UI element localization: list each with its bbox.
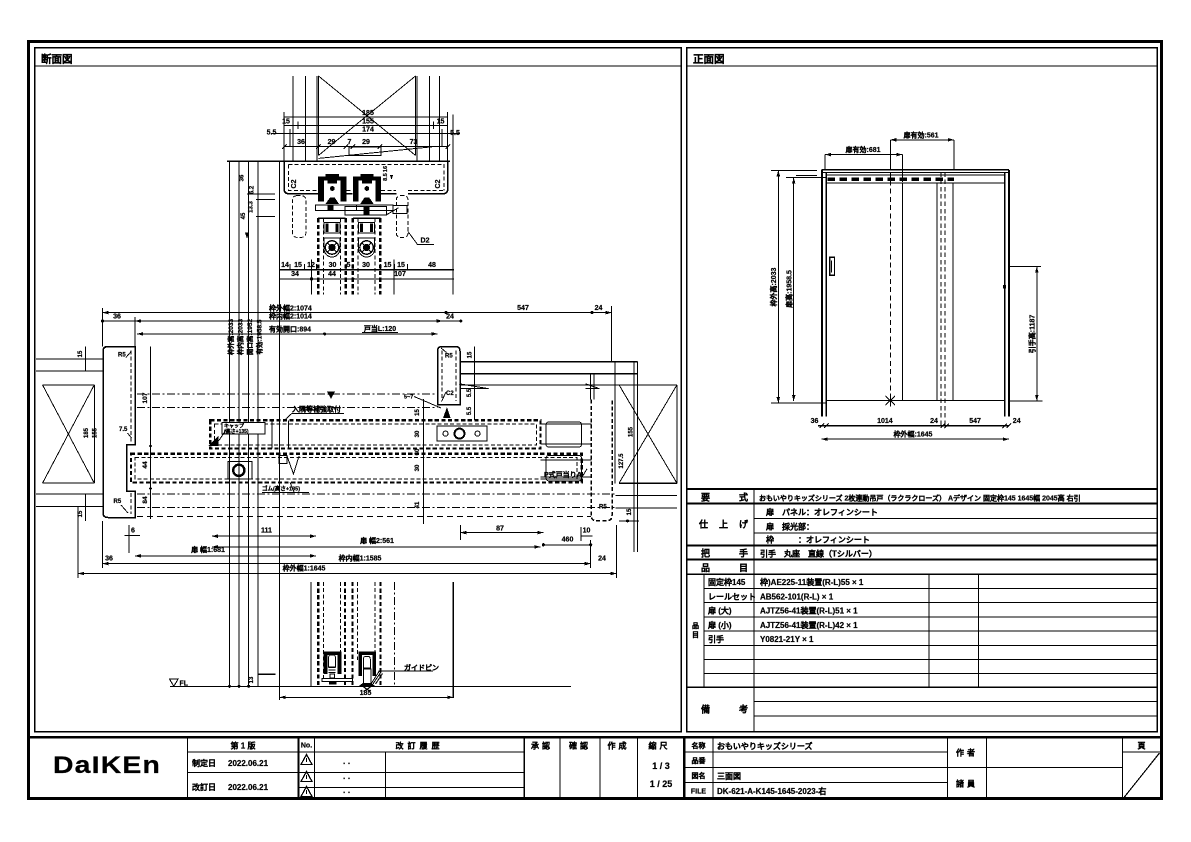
svg-text:第 1 版: 第 1 版 [231,741,256,751]
svg-text:185: 185 [84,427,90,438]
svg-text:扉 採光部：: 扉 採光部： [765,522,814,532]
svg-text:36: 36 [297,139,305,146]
svg-text:C2: C2 [446,391,454,397]
svg-text:5.5: 5.5 [467,388,473,397]
svg-text:15: 15 [437,119,445,126]
svg-text:R5: R5 [114,499,122,505]
svg-text:6.2: 6.2 [250,185,256,194]
header underline left section [188,751,525,753]
FL label [170,679,179,686]
svg-text:29: 29 [328,139,336,146]
svg-text:式: 式 [739,492,748,503]
svg-text:考: 考 [739,704,748,715]
svg-text:24: 24 [930,418,938,425]
svg-text:D2: D2 [421,238,430,245]
svg-text:155: 155 [362,119,374,126]
hidden door 2 right edge [952,183,954,401]
dim 扉高:1958.5 [793,178,795,401]
door B roller [359,238,375,257]
svg-text:枠外幅:1645: 枠外幅:1645 [894,430,933,439]
svg-text:15: 15 [415,409,421,416]
svg-text:品番: 品番 [692,756,707,765]
svg-text:30: 30 [362,262,370,269]
svg-text:84: 84 [142,496,149,504]
rail housing top line [227,160,450,162]
wedge below X [319,147,433,159]
pocket edge solid [452,582,454,698]
svg-text:30: 30 [415,430,421,437]
svg-text:15: 15 [282,119,290,126]
D2 label with leader [408,232,434,245]
long vertical jamb lines [229,161,231,686]
svg-text:1 / 25: 1 / 25 [650,779,673,789]
svg-text:8.5: 8.5 [383,173,389,181]
door B bottom section edges [351,582,353,687]
svg-text:改訂履歴: 改訂履歴 [396,741,444,751]
svg-text:15: 15 [468,351,474,358]
svg-text:枠内幅1:1585: 枠内幅1:1585 [339,553,382,562]
svg-text:48: 48 [428,262,436,269]
door bar 2 (lower door leaf plan) [131,454,582,483]
left jamb channel [103,347,135,518]
svg-text:諸員: 諸員 [956,779,978,789]
svg-text:10: 10 [583,528,591,535]
handle height reference dot [1003,285,1006,288]
rotated dim column mid-plan [423,399,425,524]
hanging point marks [208,436,219,446]
svg-text:FILE: FILE [691,789,706,796]
dim extension lines [283,112,285,161]
pocket strip [591,400,612,521]
svg-text:155: 155 [629,426,635,437]
floor guide unit B [358,652,362,677]
svg-text:引手: 引手 [708,634,724,644]
svg-text:1 / 3: 1 / 3 [652,761,670,771]
svg-text:30: 30 [415,464,421,471]
svg-text:5.5: 5.5 [267,130,277,137]
svg-text:34: 34 [291,271,299,278]
svg-text:頁: 頁 [1138,742,1146,751]
right frame jamb [1004,172,1006,416]
svg-text:枠外幅1:1645: 枠外幅1:1645 [283,563,326,572]
svg-text:547: 547 [969,418,981,425]
dim extension verticals [102,308,104,347]
door leaf hidden edge (dashed) [889,172,891,400]
right wall lower face lines [616,495,677,497]
svg-text:扉 パネル：オレフィンシート: 扉 パネル：オレフィンシート [765,507,878,517]
svg-text:P式戸当りA: P式戸当りA [544,470,582,479]
pivot detail in bar 2 [228,462,252,480]
left seal strip [293,196,306,238]
svg-text:5: 5 [347,262,351,269]
vertical divider after logo cell [187,737,189,798]
door bar 1 solid cap [546,422,582,447]
svg-text:有効開口:894: 有効開口:894 [269,324,311,333]
wall stub lines top-left [796,169,817,171]
svg-text:枠外高:2033: 枠外高:2033 [226,319,235,356]
svg-text:固定枠145: 固定枠145 [708,577,746,587]
ガイドピン label with leader [379,670,404,672]
svg-text:44: 44 [328,271,336,278]
svg-text:7: 7 [348,139,352,146]
dim ticks [282,144,450,149]
svg-text:· ·: · · [343,788,351,797]
svg-text:29: 29 [362,139,370,146]
door A roller [324,238,340,257]
頁 diagonal [1124,753,1160,798]
svg-text:手: 手 [739,548,748,559]
svg-text:枠内幅2:1014: 枠内幅2:1014 [269,312,312,321]
svg-text:備: 備 [701,704,710,715]
svg-text:30: 30 [329,262,337,269]
svg-text:460: 460 [562,537,574,544]
svg-text:ガイドピン: ガイドピン [404,663,439,672]
svg-text:41: 41 [415,501,421,508]
label column divider [753,489,755,687]
name row dividers [684,751,947,753]
svg-text:戸当L:120: 戸当L:120 [364,324,396,333]
pointer mark below right jamb [443,407,451,418]
svg-text:44: 44 [142,461,149,469]
svg-text:開口高:1952: 開口高:1952 [245,319,254,356]
dim 引手高:1187 [1036,267,1038,401]
svg-text:扉有効:681: 扉有効:681 [844,145,880,154]
svg-text:AJTZ56-41装置(R-L)42 × 1: AJTZ56-41装置(R-L)42 × 1 [760,620,858,630]
hanger unit A [318,174,346,204]
rev row dividers [188,772,525,774]
svg-text:枠内高:2033: 枠内高:2033 [236,319,245,356]
svg-text:547: 547 [517,305,529,312]
svg-text:作成: 作成 [608,741,630,751]
svg-text:FL: FL [180,681,189,688]
svg-text:AJTZ56-41装置(R-L)51 × 1: AJTZ56-41装置(R-L)51 × 1 [760,606,858,616]
svg-text:6: 6 [131,528,135,535]
divider after revision section [523,737,525,798]
door leaf right edge [902,183,904,401]
svg-text:おもいやりキッズシリーズ: おもいやりキッズシリーズ [717,741,812,751]
door B head section [352,218,354,294]
svg-text:C2: C2 [291,179,298,188]
svg-text:· ·: · · [343,759,351,768]
svg-text:引手 丸座 直線（Tシルバー）: 引手 丸座 直線（Tシルバー） [760,549,877,559]
head wall band right [459,361,637,363]
closer linkage bar [316,205,357,211]
svg-text:制定日: 制定日 [192,758,216,768]
svg-text:185: 185 [360,690,372,697]
svg-text:確認: 確認 [569,741,591,751]
svg-text:仕: 仕 [698,519,708,530]
spec table top border [687,488,1158,490]
thick divider before name section [683,737,685,798]
svg-text:· ·: · · [343,774,351,783]
svg-text:15: 15 [397,262,405,269]
svg-text:36: 36 [811,418,819,425]
svg-text:目: 目 [692,631,699,639]
svg-text:R5: R5 [118,353,126,359]
right wall break X [619,384,677,386]
svg-text:15: 15 [384,262,392,269]
svg-text:要: 要 [701,493,711,503]
svg-text:185: 185 [362,110,374,117]
left wall face lines [36,358,103,360]
svg-text:引手高:1187: 引手高:1187 [1028,315,1037,354]
divider before No col [298,737,300,798]
svg-text:45: 45 [241,212,247,219]
svg-text:DaIKEn: DaIKEn [53,752,161,779]
svg-text:14: 14 [281,262,289,269]
left panel (section view) frame [35,48,682,732]
svg-text:Y0821-21Y × 1: Y0821-21Y × 1 [760,635,814,644]
dim 枠外高:2033 (left outer) [777,170,779,403]
rail housing inner dashed outline [289,165,444,191]
right panel header line [687,65,1158,67]
centerlines upper [137,393,438,395]
svg-text:扉 (大): 扉 (大) [707,606,732,616]
svg-text:AB562-101(R-L) × 1: AB562-101(R-L) × 1 [760,592,834,601]
svg-text:13: 13 [249,676,255,683]
centerlines lower [137,493,616,495]
FL line [170,686,571,688]
キャップ callout in bar 1 [222,423,265,435]
right seal strip [396,196,408,238]
svg-text:C2: C2 [435,179,442,188]
svg-text:60: 60 [415,448,421,455]
svg-text:品: 品 [701,563,710,573]
bottom dim row 2 : 枠外幅1645 [822,438,1009,440]
svg-text:111: 111 [261,528,272,535]
band verticals [590,374,592,400]
floor guide unit A [324,652,328,675]
empty item rows [704,659,1157,661]
svg-text:15: 15 [627,508,633,515]
latch detail in bar 1 [437,426,487,441]
svg-text:5~7: 5~7 [404,395,413,401]
svg-text:127.5: 127.5 [619,453,625,469]
svg-text:有効:1958.5: 有効:1958.5 [255,319,264,354]
door handle [830,257,835,275]
svg-text:24: 24 [595,305,603,312]
bottom dim row 1 [818,425,1009,427]
extension stubs below dims [311,260,313,295]
svg-text:枠外高:2033: 枠外高:2033 [769,267,778,306]
pocket opening edge [936,183,938,401]
svg-text:15: 15 [294,262,302,269]
svg-text:改訂日: 改訂日 [192,782,216,792]
door A bottom section edges [310,582,312,687]
svg-text:作者: 作者 [956,748,978,758]
pocket centerline [393,582,395,687]
svg-text:扉有効:561: 扉有効:561 [902,131,938,140]
作者 col [947,737,949,798]
svg-text:三面図: 三面図 [717,772,741,781]
svg-text:枠外幅2:1074: 枠外幅2:1074 [269,303,312,312]
floor line [826,400,1004,402]
svg-text:ゴム(高さ+135): ゴム(高さ+135) [262,485,300,493]
hanger unit B [353,174,381,204]
quantity column dividers [928,574,930,687]
svg-text:24: 24 [598,555,606,562]
svg-text:扉 幅1:681: 扉 幅1:681 [190,545,225,554]
svg-text:87: 87 [496,526,504,533]
svg-text:24: 24 [446,314,454,321]
svg-text:R5: R5 [445,354,453,360]
svg-text:174: 174 [362,127,374,134]
wall break X box [318,76,320,155]
svg-text:155: 155 [93,427,99,438]
svg-text:13.3: 13.3 [249,201,255,213]
svg-text:16: 16 [383,166,389,172]
centerline foot mark [886,395,896,407]
svg-text:15: 15 [78,350,84,357]
left frame jamb [821,170,823,417]
svg-text:縮尺: 縮尺 [649,741,671,751]
left panel header line [35,65,682,67]
revision triangles [301,755,312,797]
door bar 1 break lines [271,420,273,448]
svg-text:36: 36 [113,314,121,321]
receiver detail in bar 2 [287,456,299,474]
frame head outer lines [822,169,1010,171]
svg-text:断面図: 断面図 [41,53,73,66]
svg-text:36: 36 [105,555,113,562]
svg-text:枠)AE225-11装置(R-L)55 × 1: 枠)AE225-11装置(R-L)55 × 1 [759,577,864,587]
hidden door 2 edges (dashed pair) [940,172,942,426]
svg-text:5.5: 5.5 [467,406,473,415]
svg-text:(高さ+135): (高さ+135) [224,428,249,435]
svg-text:枠 ：オレフィンシート: 枠 ：オレフィンシート [765,535,870,545]
svg-text:107: 107 [394,271,406,278]
svg-text:73: 73 [410,139,418,146]
title block top border [29,736,1161,738]
door bar 1 (upper door leaf plan) [210,420,540,448]
svg-text:正面図: 正面図 [693,54,725,66]
svg-text:15: 15 [78,510,84,517]
svg-text:No.: No. [301,743,312,750]
svg-text:入隅等補強取付: 入隅等補強取付 [291,405,341,414]
left wall break X [93,385,95,483]
svg-text:目: 目 [739,563,748,573]
頁 col [1122,737,1124,798]
wedge details under band [459,384,599,389]
svg-text:把: 把 [701,548,710,559]
right jamb channel [438,347,461,405]
svg-text:扉 (小): 扉 (小) [707,620,732,630]
hanger track (thick dashed) [828,177,955,181]
frame head inner lines [827,174,1005,176]
svg-text:2022.06.21: 2022.06.21 [228,783,269,792]
rail housing body [284,161,448,194]
svg-text:上: 上 [719,519,728,530]
svg-text:おもいやりキッズシリーズ 2枚連動吊戸（ラクラクローズ） A: おもいやりキッズシリーズ 2枚連動吊戸（ラクラクローズ） Aデザイン 固定枠14… [759,494,1081,503]
svg-text:R5: R5 [599,505,607,511]
svg-text:36: 36 [240,174,246,181]
door A head section [317,218,319,294]
wall studs above head [292,76,294,161]
svg-text:図名: 図名 [692,771,706,780]
svg-text:2022.06.21: 2022.06.21 [228,759,269,768]
right panel (front view) frame [687,48,1158,732]
svg-text:1014: 1014 [877,418,893,425]
svg-text:24: 24 [1013,418,1021,425]
svg-text:扉高:1958.5: 扉高:1958.5 [785,270,794,309]
svg-text:DK-621-A-K145-1645-2023-右: DK-621-A-K145-1645-2023-右 [717,786,826,796]
svg-text:7.5: 7.5 [119,427,128,433]
svg-text:品: 品 [692,621,699,630]
rev subcol divider [385,752,387,799]
svg-text:扉 幅2:561: 扉 幅2:561 [359,536,394,545]
svg-text:承認: 承認 [531,741,553,751]
svg-text:名称: 名称 [692,741,706,750]
svg-text:げ: げ [739,519,749,530]
svg-text:レールセット: レールセット [708,592,756,601]
